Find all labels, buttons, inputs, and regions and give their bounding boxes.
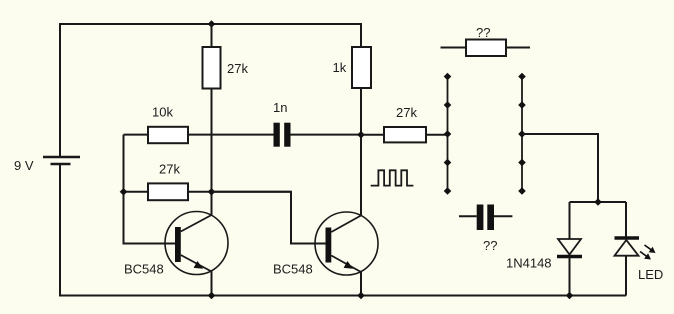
resistor R1 27k (vertical, Q1 collector load) <box>203 24 221 215</box>
resistor R6 ?? <box>441 40 531 57</box>
wire top rail V+ <box>60 24 361 156</box>
node R4 left junction <box>120 188 128 196</box>
wire tap column B <box>521 77 523 192</box>
wire tap column A <box>447 77 449 192</box>
node B1 <box>518 73 526 81</box>
wire diode top rail <box>570 201 627 203</box>
node B5 <box>518 187 526 195</box>
svg-text:10k: 10k <box>152 105 173 120</box>
resistor R4 27k (to Q1 base) <box>124 183 292 200</box>
node A4 <box>444 159 452 167</box>
node B4 <box>518 159 526 167</box>
node B3 <box>518 130 526 138</box>
node B2 <box>518 101 526 109</box>
resistor R5 27k (output) <box>361 127 448 142</box>
svg-text:1N4148: 1N4148 <box>506 256 552 271</box>
svg-text:BC548: BC548 <box>273 262 313 277</box>
LED light arrow 1 <box>645 245 656 253</box>
svg-text:27k: 27k <box>159 162 180 177</box>
svg-text:BC548: BC548 <box>124 262 164 277</box>
svg-text:LED: LED <box>638 267 663 282</box>
svg-text:??: ?? <box>483 238 497 253</box>
capacitor C1 1n <box>274 123 362 147</box>
svg-text:1n: 1n <box>273 100 287 115</box>
transistor Q2 BC548 <box>315 212 378 296</box>
svg-text:1k: 1k <box>333 60 347 75</box>
svg-text:27k: 27k <box>227 61 248 76</box>
battery B1 9V <box>43 157 80 164</box>
node A2 <box>444 101 452 109</box>
node A1 <box>444 73 452 81</box>
wire output to diodes <box>522 134 598 202</box>
resistor R3 10k <box>124 127 274 143</box>
node R4 right junction (Q1 collector) <box>208 188 216 196</box>
node top rail / R1 junction <box>208 20 216 28</box>
wire left base rail <box>124 135 176 244</box>
square wave symbol <box>371 170 414 185</box>
svg-text:27k: 27k <box>396 105 417 120</box>
node A5 <box>444 187 452 195</box>
wire Q2 base link <box>212 192 326 244</box>
node Q2 emitter at bottom rail <box>357 292 365 300</box>
node A3 <box>444 130 452 138</box>
LED light arrow 2 <box>640 252 651 260</box>
transistor Q1 BC548 <box>165 212 228 296</box>
diode D1 1N4148 <box>557 202 582 296</box>
node diode junction <box>594 198 602 206</box>
node Q2 collector / R5 junction <box>357 131 365 139</box>
node D1 anode at bottom rail <box>566 292 574 300</box>
capacitor C2 ?? <box>459 205 512 231</box>
resistor R2 1k (vertical, Q2 collector load) <box>352 47 371 216</box>
LED D2 <box>615 202 640 296</box>
svg-text:??: ?? <box>476 25 490 40</box>
wire bottom rail 0V <box>60 165 626 296</box>
svg-text:9 V: 9 V <box>14 158 34 173</box>
node Q1 emitter at bottom rail <box>208 292 216 300</box>
